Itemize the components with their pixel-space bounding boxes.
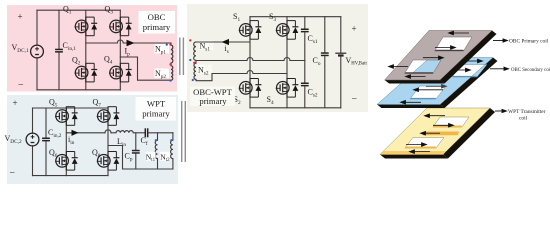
label Np2 [155,69,170,79]
arrow yellow middle stripe [421,131,441,135]
transistor Q2 [75,63,98,82]
wire left rail OBC [36,10,38,45]
label box OBC primary [139,11,176,34]
wire bottom rail WPT [33,175,109,177]
arrow blue mid-left [414,88,444,92]
gray hole shading [435,49,463,51]
arrow blue middle bar [426,85,447,89]
wire bottom rail green [250,107,341,109]
blue hole shading [453,75,477,77]
svg-text:OBC: OBC [148,12,166,22]
svg-text:+: + [352,24,357,34]
transistor S3 [276,20,299,39]
wire top rail WPT [33,107,109,109]
winding Ns2 [194,63,196,79]
wire leg2 mid return [108,146,173,170]
transistor Q3 [109,17,132,36]
OBC primary block background [7,5,177,92]
label OBC-WPT primary [190,87,235,107]
label Ns1 [199,41,214,51]
wire top rail OBC [37,9,120,11]
current arrow i_in [72,130,79,136]
winding Nt1 [155,140,157,158]
pointer OBC Primary coil [493,39,508,42]
polarity dot red Ns1 top [189,39,191,41]
OBC primary coil (gray) face [385,31,492,81]
svg-text:–: – [9,167,15,177]
svg-text:OBC Secondary coil: OBC Secondary coil [511,68,550,73]
svg-text:+: + [13,98,18,108]
capacitor Cp branch [135,133,137,150]
OBC-WPT primary block background [187,4,368,112]
transistor Q5 [55,106,78,125]
polarity dot blue Nt1 [155,139,157,141]
label Nt1 [146,152,156,161]
arrow yellow top bar [425,114,446,118]
OBC secondary coil (blue) face [377,58,493,105]
source VDC1 [31,45,44,58]
wire Cin2 branch [45,108,47,137]
capacitor Cs2 [301,83,309,85]
polarity dot blue Np1 top [166,43,168,45]
pointer WPT Transmitter coil [495,109,507,112]
WPT primary block background [7,95,178,184]
wire top rail green [250,16,341,18]
polarity dot blue Nt2 [170,139,172,141]
arrow yellow bottom bar [410,150,431,154]
WPT transmitter coil (yellow) face [380,108,490,155]
arrow blue top bar [464,59,483,63]
polarity dot blue Ns1 bottom [189,59,191,61]
label Nt2 [160,152,170,161]
arrow yellow lower window [406,143,427,147]
svg-text:WPT: WPT [147,99,166,109]
label Np1 [155,44,170,54]
arrow gray top bar [449,31,470,35]
winding Np1 [171,45,173,63]
polarity dot blue Np2 bottom [169,79,171,81]
svg-text:primary: primary [142,109,170,119]
OBC secondary coil (blue) 3D edge [440,58,498,109]
winding Np2 [171,66,173,80]
wire bottom rail OBC [37,89,120,91]
wire leg1 green [249,17,251,108]
label box WPT primary [136,97,177,121]
svg-text:primary: primary [199,96,227,106]
capacitor Cf (series) [144,128,146,137]
arrow gray upper window [435,46,456,50]
svg-text:WPT Transmitter: WPT Transmitter [508,109,546,115]
winding Ns1 [194,42,196,60]
wire Np1-Np2 link [170,63,172,66]
inductor Lin [116,131,133,133]
polarity dot blue Ns2 bottom [192,79,194,81]
wire leg2 midpoint to Np2 bottom [120,57,171,80]
transistor S4 [276,78,299,97]
svg-text:+: + [18,12,23,22]
wire Ns2 bottom to leg2 mid with hop over leg1 [196,74,247,81]
wire leg2 WPT [107,108,109,176]
capacitor Cin1 [55,49,63,51]
capacitor Cin2 [42,138,50,140]
source VDC2 [26,133,39,146]
label Ns2 [198,65,213,75]
wire Ns1 top to leg1 mid [196,41,250,43]
WPT transmitter coil (yellow) 3D edge [443,108,495,159]
yellow hole shading [434,125,462,127]
wire Cf to Nt2 [148,132,173,134]
current arrow i_s [222,39,230,45]
svg-text:OBC Primary coil: OBC Primary coil [509,39,549,45]
wire Lin to Cf [133,132,145,134]
wire Nt2 stub [172,133,174,140]
svg-text:coil: coil [519,116,528,122]
wire Cin1 branch [58,10,60,48]
wire Nt1 stub [157,133,159,140]
transistor Q6 [55,151,78,170]
svg-text:–: – [18,79,24,89]
arrow gray bottom bar [406,75,426,79]
arrow blue bottom bar [401,101,422,105]
arrow yellow upper window [433,124,454,128]
OBC primary coil (gray) 3D edge [440,31,497,84]
transformer core OBC [179,38,181,76]
wire leg2 OBC [119,10,121,90]
wire leg2 green [286,17,288,108]
svg-text:primary: primary [143,22,171,32]
battery VHV,Batt [340,17,342,53]
capacitor Co branch [324,17,326,52]
polarity dot red Np2 top [169,63,171,65]
transistor S1 [239,20,262,39]
winding Nt2 [171,140,173,158]
wire leg1 OBC [85,10,87,90]
transistor S2 [239,78,262,97]
wire center tap to Cs mid node with hops [196,60,247,62]
arrow gray middle bar [423,56,444,60]
svg-text:–: – [351,93,357,103]
wire leg1 WPT [65,108,67,176]
polarity dot red Np1 top [169,43,171,45]
transistor Q7 [97,106,120,125]
pointer OBC Secondary coil [490,67,509,70]
transistor Q4 [109,63,132,82]
polarity dot red Ns2 top [193,62,195,64]
arrow blue upper window [452,68,471,72]
current arrow Ip [127,40,135,47]
yellow bottom bar gold band [381,151,447,155]
wire leg1 midpoint to transformer with hop over leg2 [86,42,118,44]
capacitor Cs1 branch [304,17,306,29]
transistor Q1 [75,17,98,36]
wire Ns1-Ns2 link [195,60,197,63]
wire leg1 mid to output with hop over leg2 [66,132,105,134]
transistor Q8 [97,151,120,170]
yellow coil orange stripe [423,132,459,136]
arrow gray lower window [389,65,409,69]
wire left rail WPT [32,108,34,133]
WPT core lines [181,101,183,162]
